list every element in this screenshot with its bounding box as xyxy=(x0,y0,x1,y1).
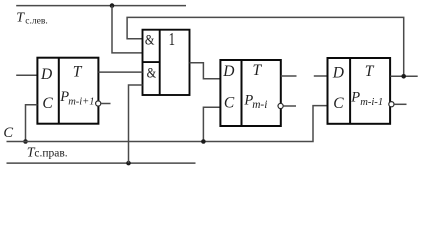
wire FF3 T output xyxy=(390,75,417,77)
node junction FF3 output feedback xyxy=(401,74,406,79)
node junction C bus FF2 xyxy=(201,139,206,144)
wire FF3 P output stub xyxy=(394,103,406,105)
node junction C bus FF1 xyxy=(23,139,28,144)
wire FF2 P output stub xyxy=(283,105,296,107)
wire FF1 T output to gate input 3 xyxy=(98,71,142,73)
svg-text:с.лев.: с.лев. xyxy=(25,15,48,26)
svg-text:с.прав.: с.прав. xyxy=(34,147,67,159)
svg-text:P: P xyxy=(350,89,360,105)
inverted output circle of U2 xyxy=(96,101,101,106)
svg-text:&: & xyxy=(145,31,155,47)
svg-text:C: C xyxy=(42,95,53,112)
label T s.prav xyxy=(27,146,68,161)
svg-text:T: T xyxy=(16,10,25,25)
label P m-i of U3 xyxy=(243,92,267,111)
svg-text:&: & xyxy=(147,65,157,81)
svg-text:T: T xyxy=(253,62,263,79)
svg-text:C: C xyxy=(333,95,344,112)
node junction on top bus xyxy=(110,3,115,8)
svg-text:C: C xyxy=(3,125,13,141)
svg-text:T: T xyxy=(365,63,375,80)
svg-text:D: D xyxy=(332,65,344,82)
wire FF1 D input stub xyxy=(16,74,37,76)
inverted output circle of U4 xyxy=(389,102,394,107)
svg-text:D: D xyxy=(222,63,234,80)
gate U1 AND-OR box xyxy=(143,30,190,95)
flip-flop U3 box xyxy=(220,60,280,126)
wire FF1 C input from C bus xyxy=(26,105,38,142)
wire C bus xyxy=(7,106,328,142)
svg-text:m-i-1: m-i-1 xyxy=(360,97,383,108)
wire feedback from U4 output to gate input 1 xyxy=(127,17,404,76)
wire FF1 P output stub xyxy=(101,103,111,105)
node junction bottom bus xyxy=(126,161,131,166)
svg-text:m-i+1: m-i+1 xyxy=(68,97,94,108)
label T s.lev xyxy=(16,10,48,26)
wire top bus T s.lev xyxy=(16,5,186,7)
wire FF2 C input from C bus xyxy=(203,107,220,141)
wire FF3 D input stub xyxy=(314,75,328,77)
wire FF2 T output stub xyxy=(281,75,297,77)
flip-flop U4 box xyxy=(328,58,391,124)
svg-text:1: 1 xyxy=(169,29,175,49)
svg-text:D: D xyxy=(40,66,52,83)
wire gate output to FF2 D input xyxy=(190,63,221,79)
label P m-i+1 of U2 xyxy=(59,89,94,108)
wire from top bus junction to gate input 2 xyxy=(112,6,143,53)
svg-text:m-i: m-i xyxy=(252,99,267,111)
svg-text:T: T xyxy=(73,64,83,81)
label P m-i-1 of U4 xyxy=(350,89,383,108)
inverted output circle of U3 xyxy=(278,103,283,108)
svg-text:C: C xyxy=(224,95,235,112)
flip-flop U2 box xyxy=(37,58,98,124)
wire from bottom bus to gate input 4 xyxy=(129,85,143,163)
wire bottom bus T s.prav xyxy=(7,162,196,164)
